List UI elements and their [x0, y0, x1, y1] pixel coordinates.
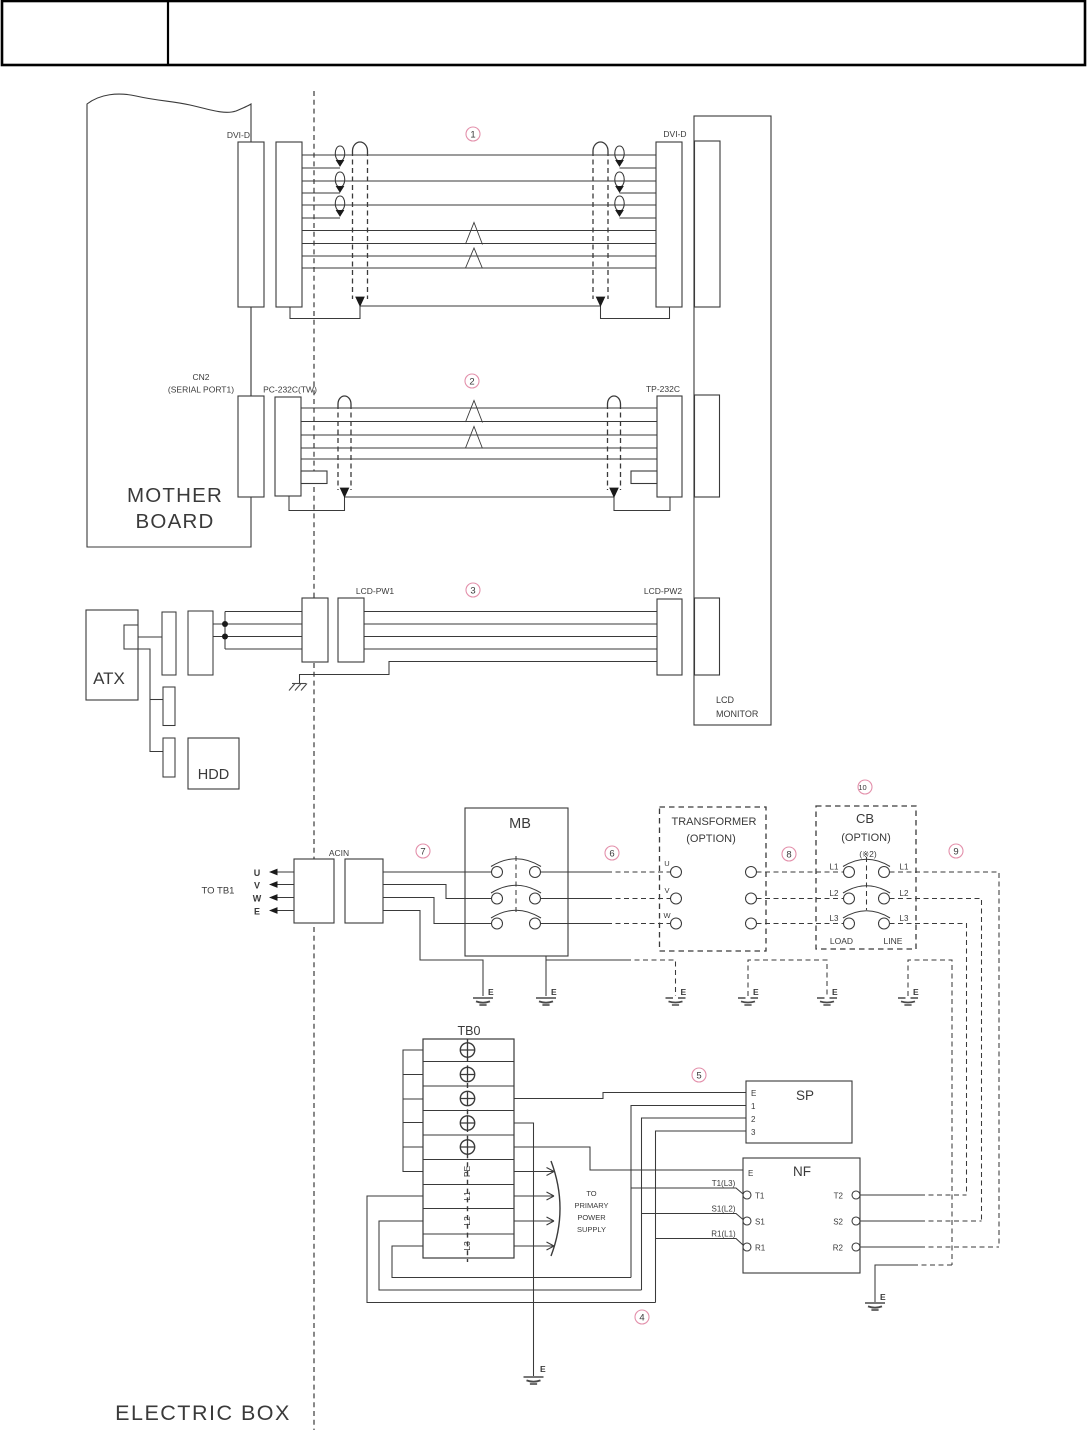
- twist symbol right 1: [615, 146, 624, 166]
- wire PW bus vertical: [224, 612, 226, 650]
- svg-text:E: E: [751, 1089, 756, 1098]
- svg-text:ACIN: ACIN: [329, 848, 349, 858]
- callout 7: [416, 844, 430, 858]
- wire 232 shield jog left: [289, 496, 345, 511]
- svg-text:T1: T1: [755, 1192, 765, 1201]
- wire SP3 vertical: [656, 1131, 747, 1303]
- HDD box: [188, 738, 239, 789]
- TB0 screw terminal 4: [460, 1116, 474, 1130]
- svg-text:NF: NF: [793, 1164, 811, 1179]
- wire ACIN W to MB stepped: [383, 898, 492, 924]
- wire PW4 right: [364, 648, 657, 650]
- svg-text:S1: S1: [755, 1218, 765, 1227]
- connector ACIN left: [294, 859, 334, 923]
- wire DVI pair1 return right stub: [620, 167, 657, 169]
- svg-text:7: 7: [420, 847, 425, 858]
- connector TP-232C latch tab: [631, 471, 657, 484]
- wire transformer to CB row2 dashed: [757, 898, 844, 900]
- svg-text:(OPTION): (OPTION): [686, 833, 736, 845]
- arrowhead W: [269, 894, 278, 901]
- wire MB out row2: [541, 898, 608, 900]
- earth ground NF: [865, 1303, 885, 1310]
- svg-text:SUPPLY: SUPPLY: [577, 1225, 606, 1234]
- svg-text:E: E: [254, 907, 260, 917]
- wire DVI pair3 return left stub: [302, 217, 340, 219]
- wire DVI pair2 signal: [302, 180, 656, 182]
- transformer secondary terminal 1: [746, 867, 757, 878]
- svg-text:6: 6: [609, 849, 614, 860]
- junction dot PW3: [222, 634, 228, 640]
- svg-text:LCD-PW2: LCD-PW2: [644, 586, 683, 596]
- wire NF R2 dashed: [920, 1246, 999, 1248]
- wire ACIN U to MB: [383, 871, 492, 873]
- svg-text:S1(L2): S1(L2): [711, 1205, 735, 1214]
- svg-text:L1: L1: [830, 863, 839, 872]
- svg-text:SP: SP: [796, 1088, 814, 1103]
- transformer option box dashed: [660, 807, 767, 951]
- callout 10: [858, 780, 872, 794]
- wire CN2 to DVI connector vertical: [250, 307, 252, 396]
- connector DVI-D on motherboard: [238, 142, 264, 307]
- TB0 screw terminal 5: [460, 1140, 474, 1154]
- wire option ground 4 stub: [908, 960, 952, 1265]
- SEC_232: [289, 401, 670, 511]
- svg-text:W: W: [253, 894, 262, 904]
- earth ground option dashed 4: [898, 998, 918, 1005]
- cable break mark 4: [466, 427, 483, 449]
- svg-text:TO: TO: [586, 1189, 596, 1198]
- svg-text:LCD: LCD: [716, 695, 735, 705]
- wire MB earth dashed continuation: [626, 960, 676, 996]
- wire MB out row1: [541, 871, 608, 873]
- connector DVI cable left: [276, 142, 302, 307]
- wire TB0 row4 to earth: [514, 1123, 534, 1376]
- MB switch pole 2 contacts and blade: [492, 893, 503, 904]
- cable break mark 2: [466, 248, 483, 269]
- header table outer border: [2, 1, 1085, 65]
- twist symbol left 3: [335, 196, 344, 216]
- svg-text:9: 9: [953, 847, 958, 858]
- wire transformer to CB row1 dashed: [757, 871, 844, 873]
- TB0 screw terminal 1: [460, 1043, 474, 1057]
- wire PW2 right: [364, 623, 657, 625]
- wire loop L1: [367, 1196, 656, 1303]
- svg-text:2: 2: [751, 1115, 756, 1124]
- shield oval right 232: [608, 396, 621, 497]
- connector LCD-PW2 cable: [657, 599, 682, 675]
- callout 1: [466, 127, 480, 141]
- SEC_NUMBERS: [416, 127, 963, 1324]
- LCD monitor box: [694, 116, 771, 725]
- svg-text:3: 3: [751, 1128, 756, 1137]
- ATX box: [86, 610, 138, 700]
- svg-text:(SERIAL PORT1): (SERIAL PORT1): [168, 385, 234, 395]
- wire TB0 row5 to NF E: [514, 1147, 743, 1170]
- TB0 center dashed line: [467, 1039, 469, 1262]
- twist symbol right 3: [615, 196, 624, 216]
- wire branch S1(L2): [642, 1214, 744, 1220]
- connector DVI cable right: [656, 142, 682, 307]
- svg-text:TRANSFORMER: TRANSFORMER: [672, 816, 757, 828]
- wire PW2 from connector D: [213, 623, 302, 625]
- CB link dashed: [866, 857, 868, 910]
- wire CB L3 out dashed: [890, 924, 967, 1196]
- svg-text:1: 1: [470, 130, 475, 141]
- connector DVI-D on monitor: [695, 141, 721, 307]
- wire DVI shield return: [360, 305, 601, 307]
- SEC_RIGHTLOOP: [367, 1195, 999, 1303]
- wire DVI pair1 signal: [302, 154, 656, 156]
- CB pole1 contacts and blade: [844, 867, 855, 878]
- wire transformer to CB row3 dashed: [757, 923, 844, 925]
- svg-text:R1(L1): R1(L1): [711, 1230, 736, 1239]
- wire option ground bridge: [748, 960, 827, 996]
- svg-text:10: 10: [858, 783, 866, 792]
- SEC_DVI: [290, 155, 670, 319]
- CB pole2 contacts and blade: [844, 893, 855, 904]
- arrowhead V: [269, 881, 278, 888]
- wire 232-2: [301, 421, 657, 423]
- svg-text:LINE: LINE: [884, 936, 903, 946]
- svg-text:E: E: [880, 1292, 886, 1302]
- shield oval left 232: [338, 396, 351, 497]
- wire loop L3: [392, 1246, 631, 1278]
- wire NF earth solid: [875, 1265, 918, 1302]
- wire DVI pair2 return right stub: [620, 192, 657, 194]
- svg-text:T2: T2: [834, 1192, 844, 1201]
- wire L3 arrow: [514, 1242, 554, 1250]
- svg-text:DVI-D: DVI-D: [227, 130, 250, 140]
- svg-text:TB0: TB0: [458, 1024, 481, 1038]
- wire MB out row1 dashed: [607, 871, 671, 873]
- SEC_POWERCABLE: [213, 612, 657, 684]
- wire DVI single 3: [302, 255, 656, 257]
- svg-text:4: 4: [639, 1313, 644, 1324]
- wire PW1: [225, 611, 302, 613]
- shield oval right DVI: [593, 142, 608, 306]
- svg-text:TO TB1: TO TB1: [202, 886, 235, 897]
- connector D (PW cable plug): [188, 611, 213, 675]
- MB box: [465, 808, 568, 956]
- svg-text:PRIMARY: PRIMARY: [574, 1201, 608, 1210]
- connector B: [163, 687, 175, 726]
- wire PW3 from connector D: [213, 636, 302, 638]
- svg-text:HDD: HDD: [198, 767, 229, 783]
- wire CB L2 out dashed: [890, 899, 982, 1222]
- TB0 jumper column left: [403, 1050, 423, 1172]
- svg-text:R2: R2: [833, 1244, 844, 1253]
- svg-text:V: V: [664, 886, 669, 895]
- wire NF T2 out: [860, 1194, 920, 1196]
- wire SP2 vertical: [642, 1118, 747, 1290]
- wire PW4: [225, 648, 302, 650]
- earth ground ACIN E: [473, 998, 493, 1005]
- transformer terminal V: [671, 893, 682, 904]
- callout 6: [605, 846, 619, 860]
- wire MB out row3 dashed: [607, 923, 671, 925]
- earth ground MB: [536, 998, 556, 1005]
- wire branch R1(L1): [656, 1239, 744, 1246]
- wire SP1 vertical: [631, 1106, 746, 1278]
- svg-text:ATX: ATX: [93, 669, 125, 688]
- svg-text:POWER: POWER: [577, 1213, 606, 1222]
- wire DVI shield jog right: [601, 306, 670, 319]
- svg-text:TP-232C: TP-232C: [646, 384, 680, 394]
- svg-text:(OPTION): (OPTION): [841, 832, 891, 844]
- earth ground TB0 row4: [524, 1377, 544, 1384]
- callout 8: [782, 847, 796, 861]
- primary supply arc: [551, 1161, 560, 1256]
- svg-text:5: 5: [696, 1071, 701, 1082]
- svg-text:MOTHER: MOTHER: [127, 484, 223, 507]
- NF box: [743, 1158, 860, 1273]
- wire 232-3: [301, 434, 657, 436]
- connector PC-232C cable left: [275, 397, 301, 496]
- chassis ground LCD-PW: [289, 684, 307, 691]
- wire MB earth: [546, 956, 626, 996]
- svg-text:L1: L1: [462, 1191, 472, 1201]
- connector TP-232C cable right: [657, 396, 682, 497]
- SEC_GROUNDROW: [748, 960, 952, 1265]
- wire MB out row2 dashed: [607, 898, 671, 900]
- TB0 row separators: [423, 1062, 514, 1235]
- wire DVI pair3 signal: [302, 204, 656, 206]
- header table divider: [167, 1, 169, 65]
- svg-text:E: E: [913, 987, 919, 997]
- svg-text:L2: L2: [900, 889, 909, 898]
- callout 5: [692, 1068, 706, 1082]
- cable break mark 3: [466, 401, 483, 423]
- CB option box dashed: [816, 806, 916, 949]
- callout 3: [466, 583, 480, 597]
- wire 232-1: [301, 407, 657, 409]
- wire ACIN V to MB stepped: [383, 885, 492, 899]
- svg-text:L3: L3: [900, 914, 909, 923]
- svg-text:L2: L2: [830, 889, 839, 898]
- connector PC-232C latch tab: [301, 471, 327, 484]
- svg-text:PC-232C(TW): PC-232C(TW): [263, 385, 317, 395]
- svg-text:MONITOR: MONITOR: [716, 709, 759, 719]
- svg-text:1: 1: [751, 1102, 756, 1111]
- arrowhead U: [269, 869, 278, 876]
- wire NF earth dashed: [918, 1264, 952, 1266]
- NF terminal R2: [852, 1243, 860, 1251]
- wire PW5 shield with step: [300, 662, 658, 684]
- svg-text:L1: L1: [900, 863, 909, 872]
- electric box boundary dashed line: [313, 91, 315, 1430]
- connector LCD-PW2 on monitor: [695, 598, 720, 675]
- MB switch pole 1 contacts and blade: [492, 867, 503, 878]
- svg-text:8: 8: [786, 850, 791, 861]
- svg-text:W: W: [663, 911, 671, 920]
- NF terminal T1: [743, 1191, 751, 1199]
- connector C: [163, 738, 175, 777]
- connector CN2 serial port on motherboard: [238, 396, 264, 497]
- svg-text:L2: L2: [462, 1216, 472, 1226]
- wire L1 arrow: [514, 1192, 554, 1200]
- wire E arrow: [275, 910, 294, 912]
- wire loop L2: [379, 1221, 642, 1290]
- wire NF T2 dashed: [920, 1194, 967, 1196]
- svg-text:R1: R1: [755, 1244, 766, 1253]
- svg-text:DVI-D: DVI-D: [663, 129, 686, 139]
- wire DVI pair1 return left stub: [302, 167, 340, 169]
- wire 232-5: [301, 458, 657, 460]
- TB0 screw terminal 2: [460, 1067, 474, 1081]
- transformer terminal U: [671, 867, 682, 878]
- wire 232 shield jog right: [614, 497, 670, 511]
- connector ACIN right: [345, 859, 383, 923]
- TB0 terminal block body: [423, 1039, 514, 1258]
- connector TP-232C on monitor: [695, 395, 720, 497]
- svg-text:E: E: [748, 1169, 753, 1178]
- svg-text:E: E: [540, 1364, 546, 1374]
- wire PW3 right: [364, 636, 657, 638]
- svg-text:E: E: [753, 987, 759, 997]
- wire NF S2 out: [860, 1220, 920, 1222]
- svg-text:S2: S2: [833, 1218, 843, 1227]
- wire DVI shield jog left: [290, 306, 360, 319]
- MB switch link dashed: [515, 856, 517, 912]
- wire ATX to connector A: [138, 636, 162, 638]
- wire DVI pair2 return left stub: [302, 192, 340, 194]
- svg-text:(※2): (※2): [859, 849, 877, 859]
- wire CB L1 out dashed: [890, 872, 1000, 1247]
- arrowhead E: [269, 907, 278, 914]
- svg-text:E: E: [681, 987, 687, 997]
- wire DVI single 2: [302, 243, 656, 245]
- svg-text:U: U: [254, 868, 261, 878]
- wire PW1 right: [364, 611, 657, 613]
- ATX output socket tab: [124, 625, 138, 649]
- NF terminal T2: [852, 1191, 860, 1199]
- svg-text:LCD-PW1: LCD-PW1: [356, 586, 395, 596]
- cable break mark 1: [466, 223, 483, 245]
- SP box: [746, 1081, 852, 1143]
- svg-text:T1(L3): T1(L3): [712, 1179, 736, 1188]
- wire ACIN E to ground: [383, 911, 483, 997]
- wire MB out row3: [541, 923, 608, 925]
- wire W arrow: [275, 897, 294, 899]
- wire 232-4: [301, 447, 657, 449]
- twist symbol right 2: [615, 172, 624, 192]
- callout 9: [949, 844, 963, 858]
- wire PE arrow: [514, 1168, 554, 1176]
- wire branch T1(L3): [631, 1188, 743, 1194]
- svg-text:LOAD: LOAD: [830, 936, 853, 946]
- wire TB0 row3 to SP E: [514, 1093, 746, 1099]
- transformer terminal W: [671, 918, 682, 929]
- wire DVI single 1: [302, 230, 656, 232]
- twist symbol left 1: [335, 146, 344, 166]
- callout 2: [465, 374, 479, 388]
- wire NF R2 out: [860, 1246, 920, 1248]
- wire DVI pair3 return right stub: [620, 217, 657, 219]
- NF terminal R1: [743, 1243, 751, 1251]
- earth ground option dashed 2: [738, 998, 758, 1005]
- svg-text:CN2: CN2: [192, 372, 209, 382]
- connector LCD-PW1 right: [338, 598, 364, 662]
- svg-text:L3: L3: [462, 1241, 472, 1251]
- svg-text:E: E: [488, 987, 494, 997]
- svg-text:PE: PE: [462, 1166, 472, 1178]
- wire branch to connector B: [150, 699, 163, 701]
- svg-text:E: E: [832, 987, 838, 997]
- wire 232 shield return: [345, 496, 615, 498]
- connector A (ATX to PW): [162, 612, 176, 675]
- NF terminal S2: [852, 1217, 860, 1225]
- wire U arrow: [275, 871, 294, 873]
- twist symbol left 2: [335, 172, 344, 192]
- svg-text:3: 3: [470, 586, 475, 597]
- earth ground option dashed 3: [817, 998, 837, 1005]
- TB0 screw terminal 3: [460, 1091, 474, 1105]
- svg-text:U: U: [664, 859, 669, 868]
- NF terminal S1: [743, 1217, 751, 1225]
- shield oval left DVI: [353, 142, 368, 306]
- wire NF S2 dashed: [920, 1220, 982, 1222]
- callout 4: [635, 1310, 649, 1324]
- svg-text:CB: CB: [856, 811, 874, 826]
- svg-text:BOARD: BOARD: [136, 510, 215, 533]
- transformer secondary terminal 3: [746, 918, 757, 929]
- svg-text:V: V: [254, 881, 260, 891]
- svg-text:MB: MB: [509, 816, 531, 832]
- wire V arrow: [275, 884, 294, 886]
- wire ATX branch down: [138, 649, 163, 752]
- transformer secondary terminal 2: [746, 893, 757, 904]
- CB pole3 contacts and blade: [844, 918, 855, 929]
- svg-text:L3: L3: [830, 914, 839, 923]
- MB switch pole 3 contacts and blade: [492, 918, 503, 929]
- junction dot PW2: [222, 621, 228, 627]
- wire L2 arrow: [514, 1217, 554, 1225]
- connector LCD-PW1 left: [302, 598, 328, 662]
- earth ground option dashed 1: [666, 998, 686, 1005]
- svg-text:ELECTRIC BOX: ELECTRIC BOX: [115, 1401, 291, 1425]
- wire DVI single 4: [302, 267, 656, 269]
- motherboard outline: [87, 94, 251, 547]
- svg-text:E: E: [551, 987, 557, 997]
- svg-text:2: 2: [469, 377, 474, 388]
